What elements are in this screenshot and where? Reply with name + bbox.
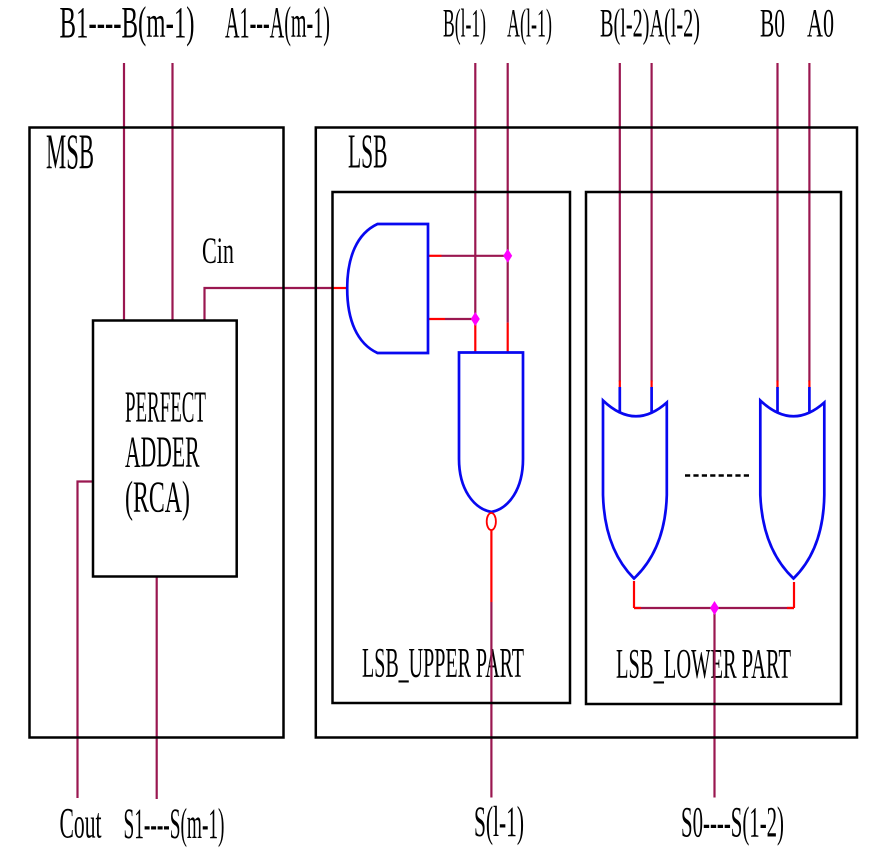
LSB_UPPER box — [333, 192, 571, 703]
nand-gate U3 output bubble — [487, 513, 496, 530]
wire NAND output red — [490, 531, 492, 603]
wire OR2 output red stub — [793, 582, 795, 608]
svg-text:S0----S(1-2): S0----S(1-2) — [681, 800, 784, 847]
wire NAND input 2 red — [507, 323, 509, 353]
nand-gate U3 body (pointing down) — [459, 353, 523, 513]
svg-text:S1----S(m-1): S1----S(m-1) — [124, 801, 225, 848]
wire B0 vertical — [776, 63, 778, 382]
wire AND lower input stub — [445, 318, 475, 320]
junction dot S0 — [710, 601, 719, 615]
svg-text:LSB: LSB — [348, 124, 388, 179]
wire AND output red segment — [331, 287, 346, 289]
svg-text:S(l-1): S(l-1) — [474, 799, 524, 846]
or-gate U5 body (pointing down) — [760, 401, 824, 579]
wire NAND input 1 red — [474, 319, 476, 353]
svg-text:LSB_UPPER PART: LSB_UPPER PART — [362, 641, 524, 687]
svg-text:B(l-2)A(l-2): B(l-2)A(l-2) — [600, 1, 700, 46]
MSB box — [30, 128, 284, 738]
svg-text:Cout: Cout — [60, 801, 102, 848]
junction dot on B(l-1) — [471, 312, 480, 326]
wire Cout — [78, 482, 94, 799]
wire A1 input — [171, 63, 173, 320]
junction dot on A(l-1) — [503, 249, 512, 263]
wire B1 input — [123, 63, 125, 320]
svg-text:Cin: Cin — [202, 231, 234, 272]
LSB_LOWER box — [586, 192, 841, 704]
svg-text:ADDER: ADDER — [125, 427, 200, 476]
wire A(l-1) vertical — [507, 63, 509, 323]
svg-text:B1----B(m-1): B1----B(m-1) — [60, 0, 195, 47]
svg-text:MSB: MSB — [46, 123, 94, 179]
LSB box — [316, 128, 857, 738]
wire OR1 output red stub — [633, 581, 635, 608]
svg-text:A(l-1): A(l-1) — [507, 1, 552, 46]
svg-text:A0: A0 — [807, 1, 834, 46]
wire AND upper input stub — [442, 255, 508, 257]
wire S(l-1) output lower — [490, 602, 492, 798]
dashed separator — [685, 474, 752, 476]
wire AND lower input red segment — [428, 318, 445, 320]
or-gate U4 input pins — [618, 387, 621, 414]
wire S1 output — [156, 577, 158, 800]
wire AND upper input red segment — [428, 255, 442, 257]
wire B(l-1) vertical — [474, 63, 476, 319]
svg-text:(RCA): (RCA) — [125, 473, 190, 522]
wire OR horizontal red ends — [634, 607, 641, 609]
or-gate U4 body (pointing down) — [603, 401, 667, 579]
wire A(l-2) vertical — [650, 63, 652, 382]
wire S0 output — [713, 608, 715, 798]
perfect adder U1 box — [93, 321, 237, 577]
wire pin transition red segments — [619, 381, 621, 389]
wire A0 vertical — [808, 63, 810, 382]
svg-text:B0: B0 — [760, 1, 785, 46]
svg-text:B(l-1): B(l-1) — [443, 1, 486, 46]
wire B(l-2) vertical — [619, 63, 621, 382]
wire OR outputs horizontal — [634, 607, 794, 609]
svg-text:A1---A(m-1): A1---A(m-1) — [225, 0, 330, 47]
and-gate U2 (facing left) — [347, 224, 428, 353]
svg-text:PERFECT: PERFECT — [125, 383, 206, 432]
svg-text:LSB_LOWER PART: LSB_LOWER PART — [616, 642, 791, 688]
or-gate U5 input pins — [776, 387, 779, 414]
wire Cin — [205, 288, 332, 320]
